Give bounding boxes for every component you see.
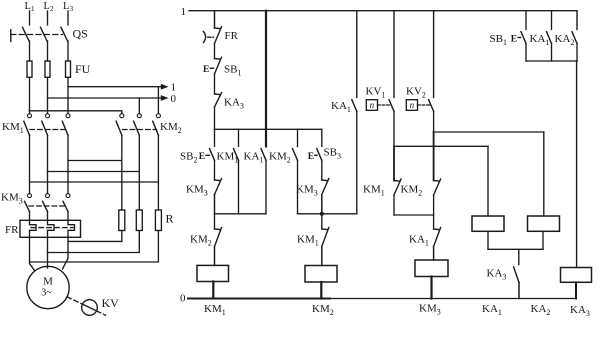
resistor R phase3 [155,210,161,231]
speed contact KV1 NO [366,100,394,112]
svg-text:E: E [199,152,205,162]
contact KM2 NC left [215,228,222,247]
contact KM3 NC left [215,179,222,195]
wire R2 to motor line2 [48,231,140,253]
wire bus2 to SB2 [214,129,216,146]
svg-text:KM1: KM1 [297,234,319,248]
arrow feed 0 [161,95,169,101]
svg-text:1: 1 [181,6,187,18]
contact KA1 NO first [261,149,266,214]
svg-text:KM1: KM1 [2,121,24,135]
svg-text:KV2: KV2 [406,86,426,100]
contact KM2 NO selfhold [293,129,298,214]
contact KA2 NO top [572,32,577,61]
svg-text:KA3: KA3 [570,304,590,318]
svg-text:R: R [166,212,174,226]
wire coil KM2 to rail0 [320,282,322,299]
svg-text:KA2: KA2 [531,303,551,317]
svg-text:KM2: KM2 [190,234,212,248]
svg-text:SB1: SB1 [490,33,507,47]
wire KM1 outputs down [30,135,69,193]
wire KM2 pole2 drop [138,98,140,114]
speed relay KV [82,300,98,316]
wire rail1 drop to KV1 [393,11,395,98]
switch QS [11,27,68,41]
wire KA3 to bus2 [214,107,216,129]
contactor KM1 main poles [24,114,70,136]
wire KA2 coil bottom [542,231,544,249]
svg-text:n: n [370,100,375,110]
svg-text:KA3: KA3 [487,268,507,282]
wire QS to FU x3 [30,41,69,61]
wire FU outputs x3 [30,77,69,113]
svg-text:FR: FR [5,224,19,236]
wire cross link phase3 [68,160,122,162]
svg-text:E: E [308,152,314,162]
fuse FU pole1 [27,61,32,77]
wire rail1 drop to KA1 second [356,11,358,98]
svg-text:KM3: KM3 [186,184,208,198]
svg-text:E: E [203,65,209,75]
wire L3 top [67,11,69,25]
button SB2 NO start [199,149,215,162]
svg-text:KM1: KM1 [363,184,385,198]
svg-text:KM3: KM3 [1,192,23,206]
wire KA2 coil feed down [543,132,545,216]
wire coil KA3 to rail0 [575,282,577,298]
wire cross link phase2 [48,171,140,173]
wire KA3 contact to rail0 [518,283,520,299]
svg-text:KA1: KA1 [409,234,429,248]
wire KA coils bottom link [488,248,543,250]
wire junction to KM1 NC mid [321,214,323,229]
contact FR NC (control) [203,27,221,44]
junction dot mid [320,212,324,216]
wire down to KA3 coil [576,61,578,268]
wire SB1 to KA3 [214,74,216,94]
coil KM3 [415,260,448,277]
wire KA1 coil bottom [487,231,489,249]
wire rail 1 [189,10,577,12]
coil KM2 [305,266,337,283]
wire KM2 pole3 drop [157,87,159,114]
svg-text:KM3: KM3 [419,303,441,317]
wire FR to SB1 [214,44,216,59]
wire KV2 to junction [433,111,435,132]
svg-text:KM1: KM1 [204,303,226,317]
contact KA1 NC [434,228,441,247]
wire coil KM3 to rail0 [430,277,432,299]
svg-text:L2: L2 [44,1,54,13]
wire control feed 1 from L3 [68,86,162,88]
wire KM1 NC right down [393,195,395,215]
svg-text:M: M [43,276,53,288]
contactor KM3 main poles [25,194,71,212]
wire FR outputs to motor [30,237,69,270]
wire node to KM2 NC [214,214,216,229]
wire rail1 drop KA1 top [551,11,553,30]
wire rail 0 thick left part [188,298,330,300]
wire KM1 NC to KM2 NC bottom link [394,214,434,216]
svg-text:0: 0 [180,293,186,305]
wire rail1 drop SB1 NO [525,11,527,30]
resistor R phase1 [119,210,125,231]
arrow feed 1 [161,84,169,90]
coil KA1 [472,216,504,231]
fuse FU pole2 [45,61,50,77]
wire KA1 coil feed down [487,146,489,216]
coil KA2 [528,216,560,231]
thermal relay FR box [20,220,81,237]
wire KM2 selfhold to junction [298,213,322,215]
wire bus node2 [215,128,322,130]
svg-text:KA1: KA1 [331,100,351,114]
contactor KM2 main poles [116,114,160,136]
svg-text:FU: FU [75,62,91,76]
wire rail1 drop branch1 [214,11,216,28]
wire KV1 junction down to KM1 NC [393,146,395,180]
wire parallel group bottom link [526,60,577,62]
svg-text:KM3: KM3 [296,184,318,198]
button SB1 NC stop [203,57,222,75]
wire L1 branch to KM2 pole1 [30,111,122,114]
wire KM2 NC to coil KM1 [214,247,216,266]
wire KV2 junction down to KM2 NC [433,132,435,181]
contact KM2 NC right [434,179,441,195]
button SB3 NO [308,149,322,162]
svg-text:KA3: KA3 [224,97,244,111]
motor M [27,266,69,308]
thermal relay FR heater elements [30,220,75,237]
wire rail1 thick drop to KA1 [265,11,267,147]
wire rail 0 [188,298,576,300]
contact KA1 NO second [352,100,357,214]
wire L1 top [29,11,31,25]
wire KM2 NC right down [433,195,435,229]
svg-text:KM2: KM2 [401,184,423,198]
contact KM1 NC right [394,179,401,195]
coil KM1 [197,265,229,281]
wire R1 to motor line3 [68,231,122,242]
svg-text:KM2: KM2 [312,303,334,317]
svg-text:KM2: KM2 [269,151,291,165]
svg-text:1: 1 [171,82,177,94]
svg-text:QS: QS [73,27,88,41]
svg-text:3~: 3~ [41,288,52,299]
wire KA1 NC to coil KM3 [433,247,435,261]
wire KV1 to junction [393,111,395,146]
contact KM1 NO selfhold [234,129,239,214]
wire L2 top [47,11,49,25]
svg-text:FR: FR [225,30,239,42]
resistor R phase2 [136,210,142,231]
contact KA3 NO [514,267,519,283]
svg-text:SB3: SB3 [324,147,341,161]
wire KM3 NC right to junction [321,195,323,214]
svg-text:E: E [511,34,517,44]
contact KA3 NC [215,93,222,107]
wire KV2 junction to KA2 coil [434,131,544,133]
wire control feed 0 from L2 [48,97,162,99]
svg-text:0: 0 [171,93,177,105]
wire KV1 junction to KA1 coil [394,145,488,147]
contact KA1 NO top [547,32,552,61]
fuse FU pole3 [66,61,71,77]
wire KM2 outputs down to R [122,135,159,210]
shaft dashed link motor to KV [67,297,106,315]
wire cross link phase1 [30,181,159,183]
svg-text:KM2: KM2 [160,121,182,135]
svg-text:n: n [410,100,415,110]
svg-text:KV: KV [102,296,120,310]
wire KM3 outputs to FR [30,212,69,221]
wire rail1 drop KA2 top [576,11,578,30]
contact KM1 NC mid [322,228,329,247]
svg-text:KA1: KA1 [244,151,264,165]
wire SB2 to KM3 NC [214,160,216,180]
svg-text:KA1: KA1 [482,303,502,317]
svg-text:KA2: KA2 [555,33,575,47]
svg-text:SB2: SB2 [180,151,197,165]
wire SB3 to KM3 NC right [321,160,323,180]
wire bus2 corner to SB3 [321,129,323,146]
svg-text:SB1: SB1 [224,64,241,78]
wire junction row left [215,213,267,215]
coil KA3 [561,268,592,283]
wire KM1 NC to coil KM2 [321,247,323,266]
svg-text:KV1: KV1 [366,86,386,100]
speed contact KV2 NO [406,100,433,112]
speed relay KV shaft chord [83,304,96,310]
svg-text:KA1: KA1 [530,33,550,47]
wire R3 to motor line1 [30,231,159,263]
wire stub to KA3 contact [518,249,520,264]
button SB1 NO braking [511,32,526,61]
wire junction to KA1 branch [322,213,357,215]
wire coil KM1 to rail0 [212,282,214,299]
contact KM3 NC right [322,179,329,195]
wire rail1 drop to KV2 [433,11,435,98]
wire KM3 NC to node [214,195,216,214]
